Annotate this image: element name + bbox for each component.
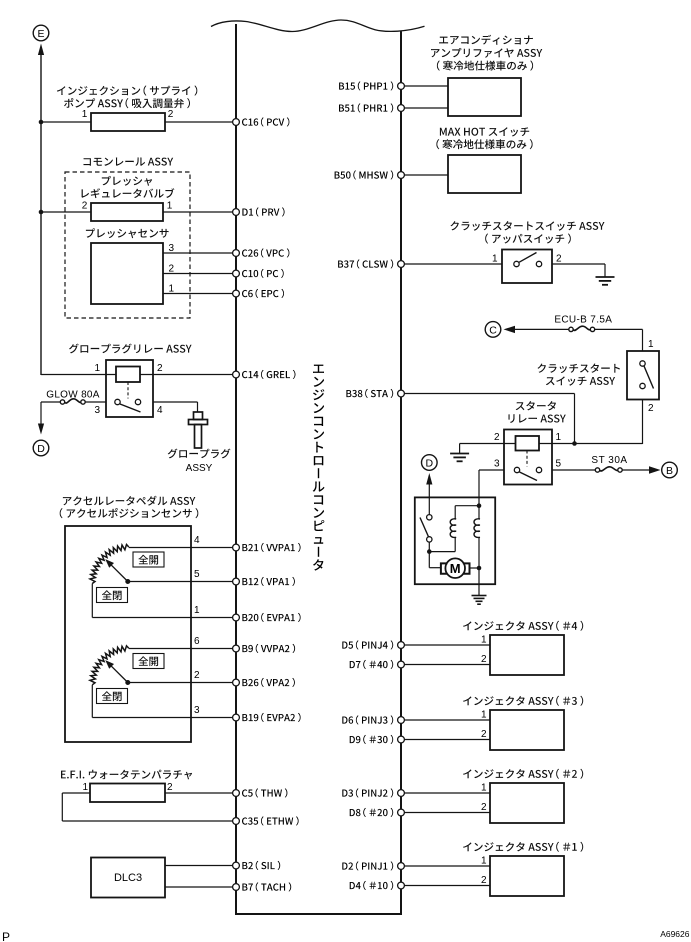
- wire fuse to lower clutch switch: [642, 329, 644, 351]
- starter assy box: [415, 497, 495, 584]
- injector #4 box: [490, 635, 564, 675]
- wire THW pin2 to C5: [165, 792, 236, 794]
- contact left (upper clutch sw): [514, 261, 519, 266]
- wire node C to clutch switch 2: [513, 328, 569, 330]
- node B12 (VPA1) : wire: [233, 581, 236, 583]
- wire glow relay pin3 to fuse: [86, 401, 107, 403]
- svg-text:ECU-B 7.5A: ECU-B 7.5A: [554, 314, 612, 325]
- svg-text:2: 2: [648, 403, 654, 414]
- switch: clutch start (upper) box: [502, 250, 552, 284]
- label upper switch: [485, 234, 571, 244]
- resistor track (pot VPA1): [90, 545, 129, 584]
- pot VPA1 wiper junction: [125, 579, 130, 584]
- wire B51 to A/C amp: [401, 107, 448, 109]
- wire glow relay coil to C14: [140, 374, 236, 376]
- wire pin2 injector #3: [401, 739, 490, 741]
- wire to starter ground: [478, 584, 480, 595]
- svg-text:1: 1: [481, 710, 487, 721]
- svg-text:2: 2: [481, 729, 487, 740]
- svg-text:M: M: [450, 561, 461, 576]
- svg-text:2: 2: [481, 654, 487, 665]
- svg-text:2: 2: [494, 432, 500, 443]
- wire pin2 injector #2: [401, 812, 490, 814]
- node D7（＃40） terminal: [398, 661, 405, 668]
- wire D arrow to starter switch: [428, 484, 430, 515]
- label cold-area spec only 1: [437, 61, 533, 71]
- node D1 (PRV) : wire: [233, 211, 236, 213]
- svg-text:1: 1: [94, 363, 100, 374]
- label air conditioner: [439, 35, 533, 45]
- wire starter relay pin3 to starter: [479, 469, 504, 471]
- node B15 (PHP1) label: [339, 81, 393, 90]
- wire starter relay pin5 to fuse: [552, 469, 595, 471]
- wire junction to coil1 bottom: [429, 551, 455, 553]
- svg-text:P: P: [2, 930, 10, 942]
- starter switch contact bottom: [427, 537, 432, 542]
- ECU vertical label: engine control computer: [313, 365, 324, 374]
- node C16 (PCV) : wire: [233, 121, 236, 123]
- wire fuse to node B: [623, 469, 651, 471]
- node B38 (STA) label: [346, 389, 393, 398]
- svg-text:2: 2: [169, 264, 175, 275]
- svg-text:ST 30A: ST 30A: [591, 455, 627, 466]
- junction motor right: [477, 566, 482, 571]
- relay contact left (glow): [115, 399, 120, 404]
- wire pot VPA1 track-top to pin 4: [129, 547, 236, 549]
- svg-text:4: 4: [157, 405, 163, 416]
- node B9 (VVPA2) label: [242, 644, 295, 653]
- node B37 (CLSW) label: [338, 259, 393, 268]
- label clutch start (2): [538, 364, 620, 374]
- node C circle: [485, 322, 501, 338]
- label injector assy #4: [463, 621, 583, 631]
- injector #2 box: [490, 783, 564, 823]
- node C6 (EPC) terminal: [233, 290, 240, 297]
- node C5 (THW) terminal: [233, 790, 240, 797]
- svg-text:2: 2: [481, 875, 487, 886]
- ECU right bus wire: [400, 32, 402, 915]
- node B20 (EVPA1) : wire: [233, 617, 236, 619]
- svg-text:3: 3: [494, 459, 500, 470]
- resistor: injection pump suction control valve: [91, 113, 165, 131]
- wire pot VPA1 track-bottom to pin 1: [91, 584, 93, 618]
- svg-text:1: 1: [194, 605, 200, 616]
- label full-open (pot2) box: [133, 654, 164, 669]
- svg-text:3: 3: [169, 243, 175, 254]
- wire pump pin2 to C16: [165, 121, 236, 123]
- fuse ST 30A: [600, 467, 618, 471]
- wire rail to glow relay coil: [41, 374, 116, 376]
- motor brush right: [463, 563, 470, 573]
- junction B38/relay/switch: [572, 441, 577, 446]
- label glow plug relay assy: [69, 344, 192, 354]
- wire sensor pin1 to C6: [163, 293, 236, 295]
- label glow plug: [168, 449, 231, 459]
- node B51 (PHR1) label: [339, 103, 393, 112]
- node B19 (EVPA2) : wire: [233, 717, 236, 719]
- wire pin2 injector #1: [401, 885, 490, 887]
- wire sensor pin3 to C26: [163, 252, 236, 254]
- node C6 (EPC) label: [242, 289, 284, 298]
- label injector assy #1: [463, 842, 583, 852]
- node B26 (VPA2) terminal: [233, 679, 240, 686]
- node B15 (PHP1) terminal: [398, 83, 405, 90]
- label injector assy #2: [463, 769, 583, 779]
- left supply rail wire (E to glow relay): [40, 54, 42, 375]
- label full-close (pot2) box: [97, 689, 128, 704]
- wire pin1 injector #4: [401, 644, 490, 646]
- node B51 (PHR1) terminal: [398, 105, 405, 112]
- node C14 (GREL) terminal: [233, 371, 240, 378]
- svg-text:B: B: [666, 465, 673, 477]
- label full-close (pot2): [102, 691, 122, 701]
- injector #1 box: [490, 856, 564, 896]
- label amplifier assy: [431, 48, 542, 58]
- label regulator valve: [82, 188, 175, 198]
- node B12 (VPA1) terminal: [233, 578, 240, 585]
- wire pin1 injector #3: [401, 719, 490, 721]
- wire coil2 top/bottom: [478, 506, 480, 519]
- node C35 (ETHW) label: [242, 816, 299, 825]
- lever (lower clutch sw): [644, 366, 654, 389]
- node B20 (EVPA1) terminal: [233, 614, 240, 621]
- junction on rail at valve: [39, 210, 44, 215]
- svg-text:2: 2: [168, 109, 174, 120]
- node B9 (VVPA2) terminal: [233, 645, 240, 652]
- relay plunger dashed link (starter): [526, 451, 528, 467]
- wire pot VPA2 track-bottom to pin 3: [91, 685, 93, 718]
- node C35 (ETHW) : wire: [233, 820, 236, 822]
- wire DLC3 to B7: [165, 886, 236, 888]
- svg-text:1: 1: [169, 284, 175, 295]
- node D2（PINJ1） terminal: [398, 863, 405, 870]
- wire pin1 injector #2: [401, 792, 490, 794]
- coil 1 (pull-in): [450, 519, 456, 538]
- node D3（PINJ2） label: [342, 788, 393, 797]
- node B37 (CLSW) terminal: [398, 261, 405, 268]
- label starter: [516, 401, 556, 410]
- wire starter switch to motor junction: [428, 542, 430, 568]
- label full-close (pot1): [102, 590, 122, 600]
- node D (right) circle: [422, 455, 438, 471]
- node B2 (SIL) terminal: [233, 862, 240, 869]
- coil 2 (hold-in): [474, 519, 480, 538]
- svg-text:3: 3: [194, 705, 200, 716]
- label EFI water temperature sensor: [61, 770, 192, 780]
- wire coil1 top: [454, 506, 456, 519]
- node C10 (PC) label: [242, 269, 284, 278]
- node B21 (VVPA1) label: [242, 543, 300, 552]
- node D2（PINJ1） label: [342, 861, 393, 870]
- ECU bottom edge wire: [235, 913, 402, 915]
- label cold-area spec only 2: [436, 139, 532, 149]
- node D4（＃10） label: [350, 881, 394, 890]
- node D4（＃10） terminal: [398, 882, 405, 889]
- node D7（＃40） label: [350, 660, 394, 669]
- wire pin2 injector #4: [401, 664, 490, 666]
- node D9（＃30） label: [350, 735, 394, 744]
- svg-text:3: 3: [94, 405, 100, 416]
- contact left (starter relay): [514, 467, 519, 472]
- wire B38 to junction: [401, 393, 575, 395]
- node B12 (VPA1) label: [242, 577, 295, 586]
- label full-open (pot1): [138, 555, 158, 565]
- node B arrow: [649, 466, 661, 473]
- node B20 (EVPA1) label: [242, 613, 300, 622]
- contact right (upper clutch sw): [536, 261, 541, 266]
- node D6（PINJ3） label: [342, 715, 393, 724]
- connector DLC3 box: [91, 858, 165, 898]
- wire valve pin1 to D1: [163, 211, 236, 213]
- node B21 (VVPA1) : wire: [233, 547, 236, 549]
- node B9 (VVPA2) : wire: [233, 648, 236, 650]
- relay: glow plug relay box: [106, 360, 153, 417]
- relay: starter relay box: [504, 430, 552, 485]
- svg-text:E: E: [37, 28, 44, 40]
- node D (left) circle: [33, 440, 49, 456]
- label relay assy: [508, 414, 565, 423]
- svg-text:1: 1: [82, 109, 88, 120]
- node D3（PINJ2） terminal: [398, 790, 405, 797]
- node C26 (VPC) label: [242, 248, 289, 257]
- wire glow relay pin4 to glow plug: [153, 401, 198, 403]
- resistor: water temp sensor: [90, 784, 165, 803]
- node D1 (PRV) terminal: [233, 209, 240, 216]
- node C6 (EPC) : wire: [233, 293, 236, 295]
- label common rail assy: [84, 158, 174, 166]
- wire B37 to upper clutch sw: [401, 263, 502, 265]
- node B2 (SIL) label: [242, 861, 280, 870]
- node B50 (MHSW) label: [335, 170, 394, 179]
- svg-text:1: 1: [481, 856, 487, 867]
- label pressure: [102, 176, 152, 186]
- resistor: pressure regulator valve: [91, 203, 163, 221]
- svg-text:1: 1: [492, 254, 498, 265]
- node C5 (THW) label: [242, 788, 287, 797]
- node B2 (SIL) : wire: [233, 865, 236, 867]
- wire switch junction down to motor: [429, 567, 441, 569]
- svg-text:ASSY: ASSY: [186, 463, 213, 474]
- node B7 (TACH) terminal: [233, 884, 240, 891]
- node D1 (PRV) label: [242, 207, 284, 216]
- wire starter relay pin1 to junction: [539, 443, 643, 445]
- starter switch contact top: [427, 515, 432, 520]
- ground (upper clutch sw): [596, 276, 615, 278]
- label full-close (pot1) box: [97, 588, 128, 603]
- svg-text:1: 1: [82, 782, 88, 793]
- node C arrow: [504, 326, 516, 333]
- node C16 (PCV) terminal: [233, 119, 240, 126]
- junction coil tops: [477, 503, 482, 508]
- node C35 (ETHW) terminal: [233, 818, 240, 825]
- svg-text:2: 2: [481, 802, 487, 813]
- starter switch lever: [420, 518, 429, 538]
- node D9（＃30） terminal: [398, 736, 405, 743]
- wire lower clutch sw pin2 down: [642, 400, 644, 445]
- label pressure sensor: [86, 228, 169, 238]
- contact top (lower clutch sw): [640, 361, 645, 366]
- label accelerator pedal assy: [63, 496, 196, 506]
- wire pot VPA2 track-top to pin 6: [129, 648, 236, 650]
- svg-text:2: 2: [167, 782, 173, 793]
- wire upper clutch sw to ground: [552, 263, 605, 265]
- contact right (starter relay): [536, 467, 541, 472]
- contact bottom (lower clutch sw): [640, 383, 645, 388]
- label full-open (pot1) box: [133, 552, 164, 567]
- wire B15 to A/C amp: [401, 85, 448, 87]
- wire motor to right junction: [470, 567, 480, 569]
- label switch assy (2): [546, 376, 615, 385]
- motor M circle: [445, 558, 465, 578]
- svg-text:A69626: A69626: [660, 929, 690, 939]
- glow plug symbol: [194, 412, 203, 420]
- node C10 (PC) terminal: [233, 270, 240, 277]
- fuse ECU-B 7.5A: [573, 326, 590, 330]
- svg-text:1: 1: [167, 201, 173, 212]
- node E arrow: [38, 44, 44, 56]
- svg-text:D: D: [426, 458, 434, 470]
- node D5（PINJ4） label: [342, 640, 393, 649]
- node D6（PINJ3） terminal: [398, 717, 405, 724]
- svg-text:1: 1: [481, 783, 487, 794]
- relay plunger dashed link: [127, 382, 129, 399]
- node B21 (VVPA1) terminal: [233, 544, 240, 551]
- wire rail to valve pin2: [41, 211, 91, 213]
- svg-text:5: 5: [556, 459, 562, 470]
- motor brush left: [441, 563, 448, 573]
- wire B50 to MAX HOT switch: [401, 174, 448, 176]
- wire sensor pin2 to C10: [163, 273, 236, 275]
- ground (starter motor): [472, 595, 487, 597]
- node D5（PINJ4） terminal: [398, 642, 405, 649]
- node D8（＃20） terminal: [398, 809, 405, 816]
- label clutch start switch assy: [450, 221, 604, 231]
- switch: clutch start (lower) box: [627, 351, 659, 400]
- relay coil (starter): [516, 436, 540, 451]
- node C5 (THW) : wire: [233, 792, 236, 794]
- svg-text:6: 6: [194, 636, 200, 647]
- node C16 (PCV) label: [242, 117, 289, 126]
- svg-text:2: 2: [157, 363, 163, 374]
- relay contact right (glow): [135, 399, 140, 404]
- node C14 (GREL) label: [242, 370, 296, 379]
- wire pot VPA2 wiper to pin 2: [128, 682, 236, 684]
- A/C amplifier assy box: [448, 78, 521, 116]
- wire starter relay pin2 to ground: [460, 443, 516, 445]
- node C14 (GREL) : wire: [233, 374, 236, 376]
- node B50 (MHSW) terminal: [398, 172, 405, 179]
- node D8（＃20） label: [350, 808, 394, 817]
- node C26 (VPC) : wire: [233, 252, 236, 254]
- wire DLC3 to B2: [165, 865, 236, 867]
- lever (upper clutch sw): [519, 253, 537, 263]
- common rail assy dashed outline: [65, 172, 190, 318]
- wire pin1 injector #1: [401, 865, 490, 867]
- lever (starter relay): [520, 472, 538, 481]
- svg-text:2: 2: [194, 670, 200, 681]
- node B26 (VPA2) label: [242, 678, 295, 687]
- node B19 (EVPA2) terminal: [233, 714, 240, 721]
- node C10 (PC) : wire: [233, 273, 236, 275]
- junction on rail at pump: [39, 120, 44, 125]
- svg-text:C: C: [489, 324, 497, 336]
- label injector assy #3: [463, 696, 583, 706]
- wire E-rail to pump pin1: [41, 121, 91, 123]
- node C26 (VPC) terminal: [233, 250, 240, 257]
- node B7 (TACH) label: [242, 882, 291, 891]
- label pump assy (intake metering valve): [64, 98, 190, 108]
- wire fuse to D arrow: [41, 401, 60, 403]
- label accel position sensor: [60, 508, 199, 518]
- resistor track (pot VPA2): [90, 646, 129, 685]
- svg-text:D: D: [37, 443, 45, 455]
- ground (starter relay): [450, 453, 469, 455]
- svg-text:2: 2: [556, 254, 562, 265]
- node D (right) arrow: [426, 473, 432, 485]
- pot VPA2 wiper arrow: [110, 665, 128, 683]
- ECU main bus: wavy break at top: [211, 20, 425, 32]
- relay coil (glow): [116, 367, 140, 383]
- accelerator pedal assy box: [65, 526, 191, 742]
- label full-open (pot2): [138, 656, 158, 666]
- svg-text:5: 5: [194, 569, 200, 580]
- pressure sensor box: [91, 243, 163, 304]
- svg-text:1: 1: [556, 432, 562, 443]
- relay lever (glow): [120, 404, 141, 412]
- junction starter switch/coil1: [427, 549, 432, 554]
- wire THW pin1 loop to C35: [62, 792, 90, 794]
- node E : circle: [33, 25, 49, 41]
- MAX HOT switch box: [448, 155, 521, 193]
- node B26 (VPA2) : wire: [233, 682, 236, 684]
- node B7 (TACH) : wire: [233, 886, 236, 888]
- wire pot VPA1 wiper to pin 5: [128, 581, 236, 583]
- pot VPA1 wiper arrow: [110, 564, 128, 582]
- fuse GLOW 80A: [65, 399, 81, 403]
- svg-text:4: 4: [194, 535, 200, 546]
- node B circle: [662, 462, 678, 478]
- node D (left) arrow: [38, 424, 44, 435]
- injector #3 box: [490, 710, 564, 750]
- svg-text:2: 2: [82, 201, 88, 212]
- svg-text:1: 1: [481, 635, 487, 646]
- svg-text:DLC3: DLC3: [114, 872, 142, 884]
- label injection (supply): [57, 86, 197, 96]
- node B38 (STA) terminal: [398, 390, 405, 397]
- node B19 (EVPA2) label: [242, 713, 300, 722]
- svg-text:1: 1: [648, 339, 654, 350]
- label MAX HOT switch: [440, 127, 529, 136]
- pot VPA2 wiper junction: [125, 680, 130, 685]
- ECU left bus wire: [235, 24, 237, 914]
